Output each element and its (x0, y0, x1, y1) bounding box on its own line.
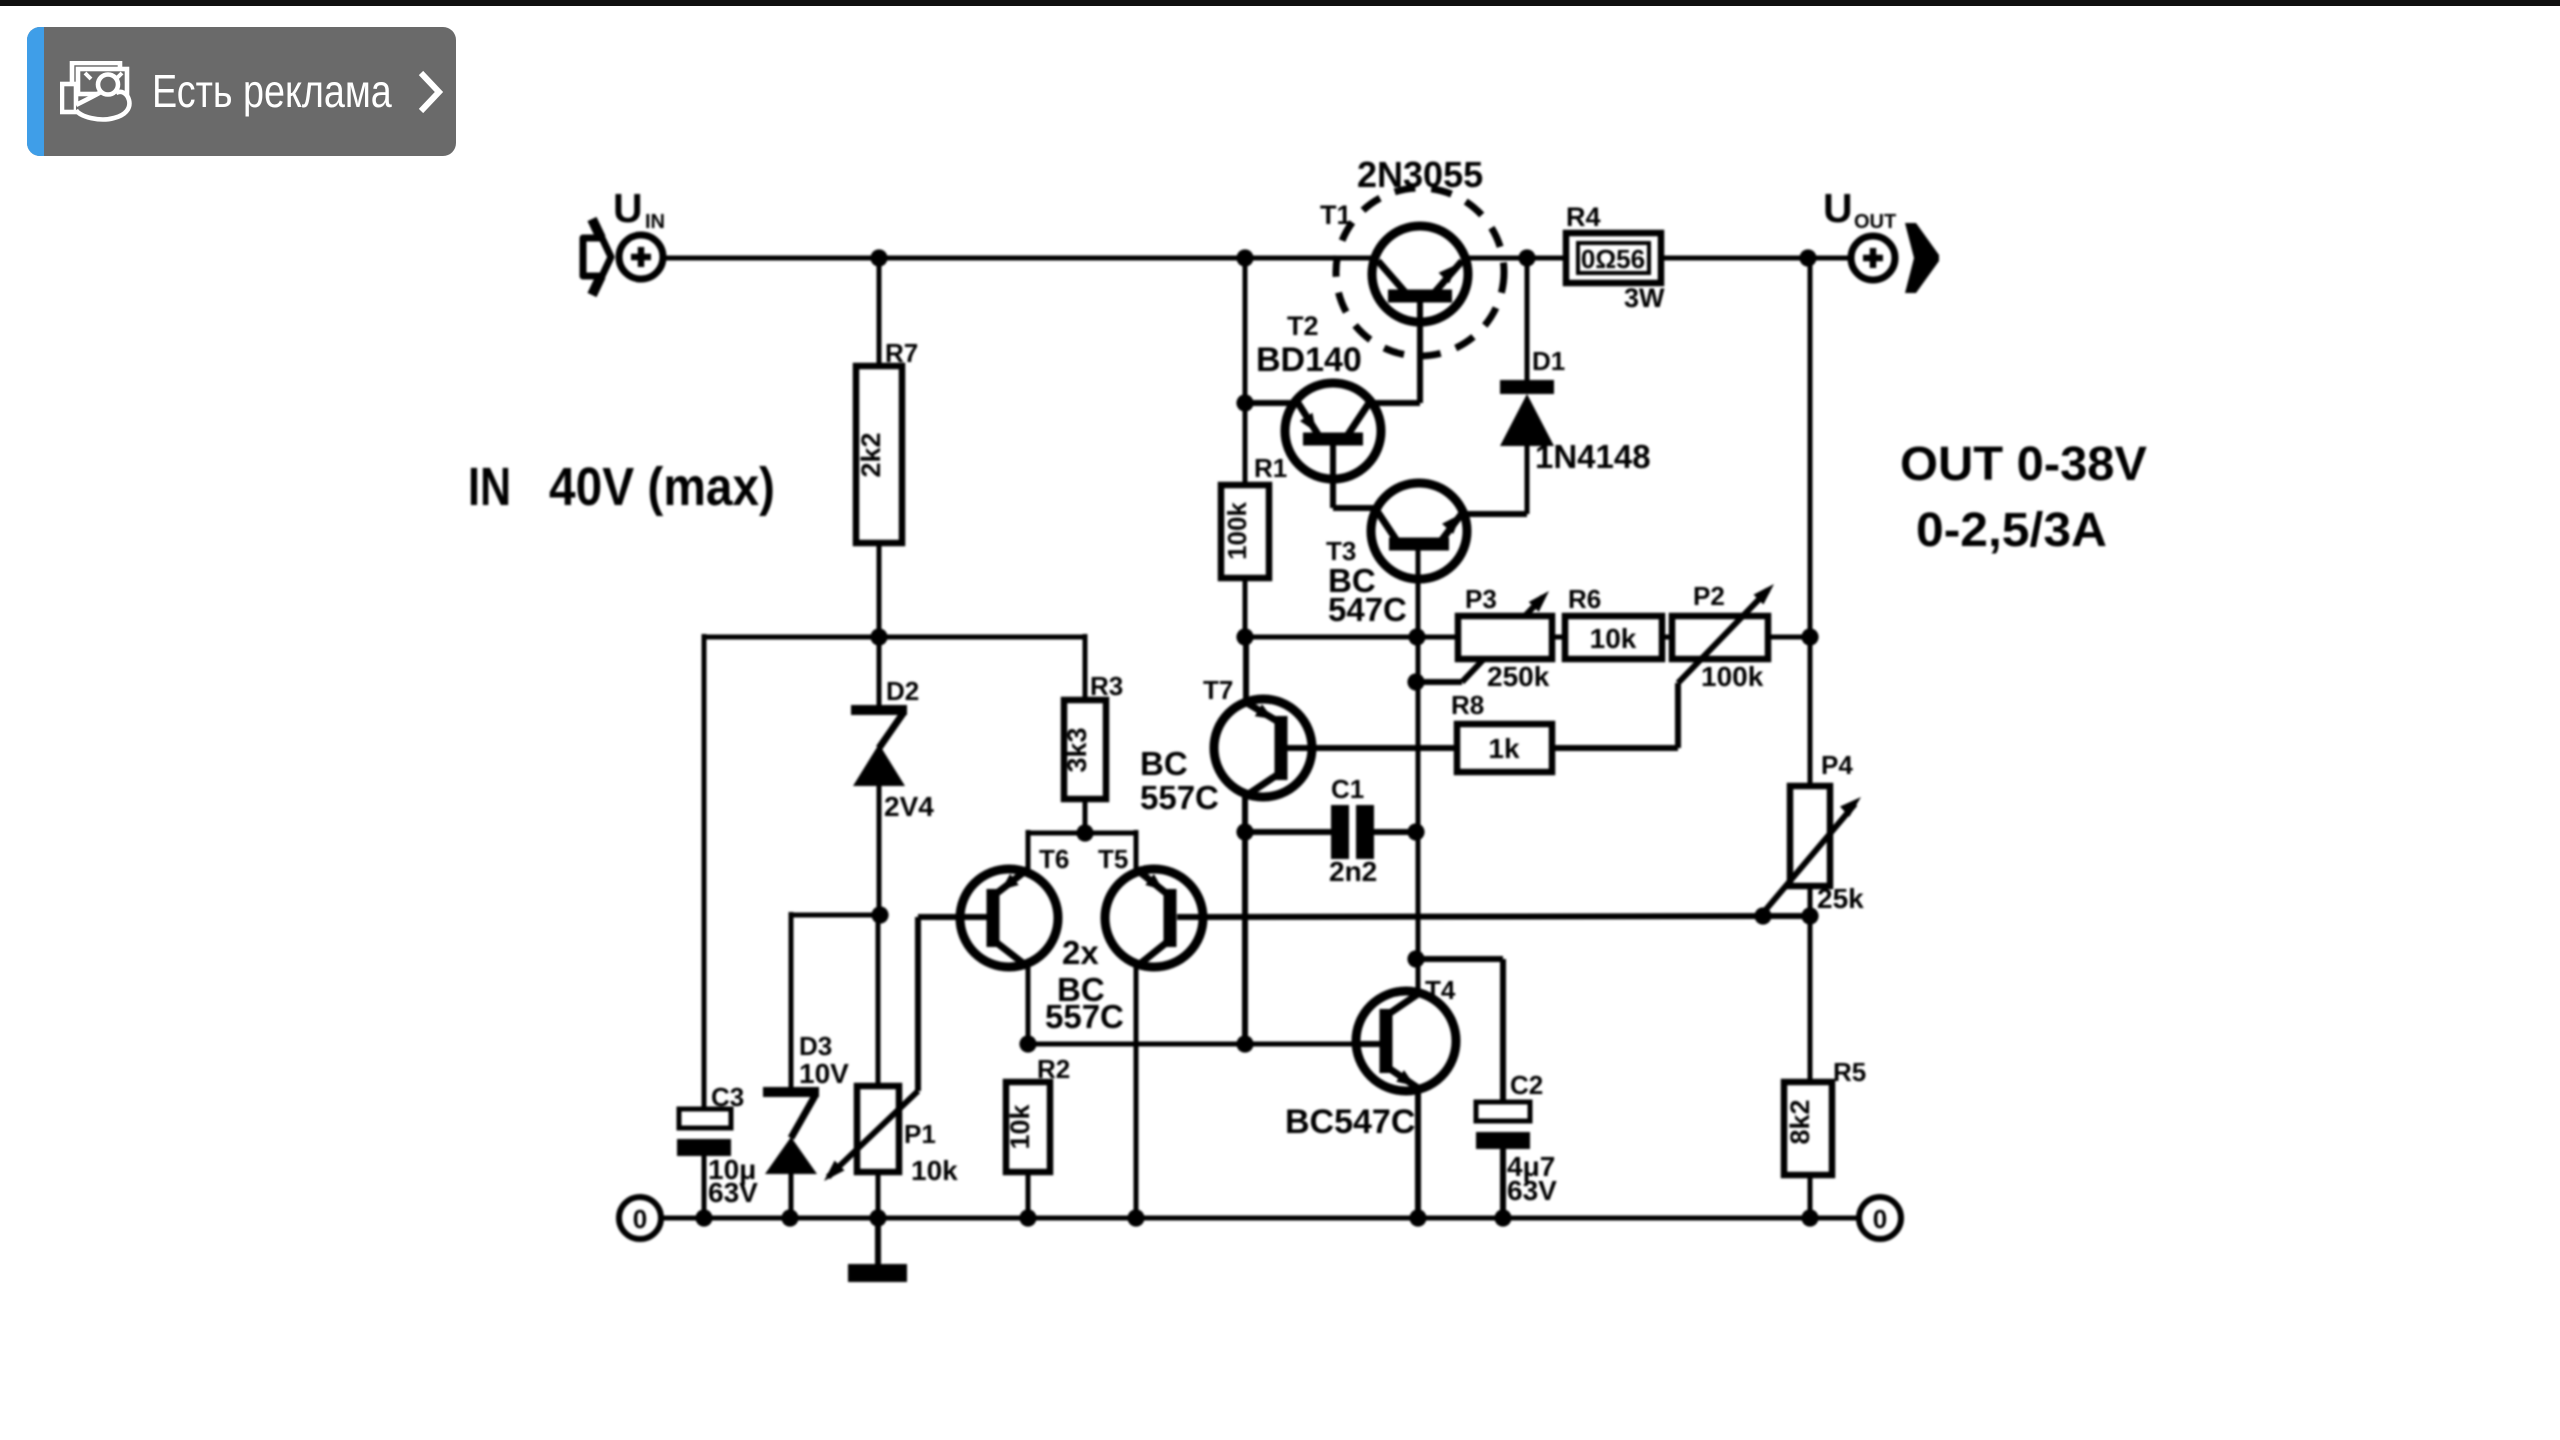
chevron (415, 70, 445, 114)
svg-text:U: U (613, 185, 643, 231)
svg-text:10V: 10V (799, 1058, 849, 1089)
svg-text:0: 0 (1873, 1204, 1887, 1234)
resistor R6 10k (1565, 616, 1662, 659)
junction gnd P1 (869, 1209, 886, 1226)
potentiometer P3 250k (1458, 616, 1552, 659)
svg-text:R6: R6 (1568, 584, 1601, 614)
junction C1 right (1407, 823, 1424, 840)
svg-text:100k: 100k (1701, 661, 1764, 692)
junction T7 collector / T4 base line (1236, 1035, 1253, 1052)
svg-text:BC547C: BC547C (1285, 1103, 1415, 1141)
svg-text:OUT 0-38V: OUT 0-38V (1900, 438, 2147, 491)
svg-text:P3: P3 (1465, 584, 1497, 614)
wire R4 to U_OUT (1661, 256, 1851, 261)
transistor T1 (1372, 226, 1468, 403)
svg-text:100k: 100k (1222, 502, 1252, 560)
wire T3 emitter to D1 (1463, 511, 1527, 517)
svg-text:25k: 25k (1817, 883, 1864, 914)
potentiometer P1 10k (824, 917, 962, 1181)
output arrow symbol (1905, 223, 1939, 293)
transistor T4 BC547C (1356, 991, 1456, 1091)
wire T4 emitter to ground rail (1415, 1088, 1421, 1218)
wire node B to P3 (1245, 635, 1458, 640)
svg-text:T5: T5 (1098, 844, 1128, 874)
wire T2 emitter left (1245, 400, 1298, 406)
transistor T1 2N3055 dashed case (1336, 188, 1504, 356)
svg-text:557C: 557C (1045, 998, 1124, 1035)
svg-text:0-2,5/3A: 0-2,5/3A (1916, 504, 2107, 557)
junction top rail / R7 (870, 249, 887, 266)
svg-text:T7: T7 (1203, 675, 1233, 705)
label 2x BC 557C (1045, 934, 1124, 1035)
svg-text:40V (max): 40V (max) (549, 457, 775, 517)
svg-text:T6: T6 (1039, 844, 1069, 874)
potentiometer P2 100k (1672, 584, 1774, 748)
svg-text:0Ω56: 0Ω56 (1581, 244, 1645, 274)
junction R3 bracket (1076, 824, 1093, 841)
wire C3 branch vertical (702, 634, 707, 1110)
junction T6 collector / R2 (1019, 1035, 1036, 1052)
svg-text:250k: 250k (1487, 661, 1550, 692)
svg-text:P2: P2 (1693, 581, 1725, 611)
svg-text:R7: R7 (885, 338, 918, 368)
transistor T2 BD140 (1285, 383, 1381, 508)
svg-text:R5: R5 (1833, 1057, 1866, 1087)
wire T5 base to P4 wiper (1203, 916, 1810, 917)
wire R8 to T7 base (1312, 745, 1457, 751)
svg-text:63V: 63V (708, 1177, 758, 1208)
svg-text:BD140: BD140 (1256, 341, 1362, 379)
potentiometer P4 25k (1763, 786, 1861, 913)
wire node A left to C3 branch (704, 635, 1085, 640)
junction gnd T4 (1409, 1209, 1426, 1226)
svg-text:3W: 3W (1624, 283, 1665, 313)
wire T6 collector down (1026, 967, 1031, 1044)
wire R1 to node B (1243, 578, 1248, 637)
junction gnd D3 (781, 1209, 798, 1226)
wire output rail upper (1808, 258, 1813, 786)
junction top rail / output rail (1799, 249, 1816, 266)
transistor T6 (960, 869, 1058, 967)
svg-text:10k: 10k (1590, 623, 1637, 654)
wire R3 to T6/T5 bracket (1083, 799, 1088, 833)
wire C2 branch (1416, 959, 1503, 1103)
svg-text:2V4: 2V4 (884, 791, 934, 822)
svg-text:OUT: OUT (1854, 211, 1896, 233)
node 0V ground rail (661, 1216, 1859, 1221)
svg-text:2n2: 2n2 (1329, 856, 1377, 887)
resistor R1 100k (1221, 485, 1269, 578)
resistor R7 2k2 (856, 366, 902, 543)
wire T2 collector to T1 base (1369, 400, 1420, 403)
svg-text:D3: D3 (799, 1031, 832, 1061)
transistor T3 BC547C (1371, 483, 1467, 579)
wire T7 collector down (1242, 795, 1248, 1044)
junction top rail / D1 (1518, 249, 1535, 266)
svg-text:D2: D2 (886, 676, 919, 706)
ad banner (27, 27, 456, 156)
svg-text:R1: R1 (1254, 453, 1287, 483)
svg-text:547C: 547C (1328, 591, 1407, 628)
junction node A (870, 628, 887, 645)
svg-text:63V: 63V (1507, 1175, 1557, 1206)
junction output rail sense line (1801, 907, 1818, 924)
input connector symbol (583, 219, 611, 295)
svg-text:10k: 10k (1005, 1103, 1035, 1149)
svg-text:C1: C1 (1331, 774, 1364, 804)
wire D2 node to D3 (791, 913, 880, 918)
terminal U_IN (619, 235, 663, 279)
node +IN rail: wire (664, 256, 1375, 261)
svg-text:BC: BC (1140, 745, 1188, 782)
ground symbol (848, 1218, 907, 1282)
resistor R3 3k3 (1062, 700, 1106, 799)
wire T5 collector to ground rail (1134, 967, 1139, 1218)
wire bracket T6 T5 (1028, 830, 1136, 870)
wire P2 wiper to R8 (1552, 745, 1678, 751)
wire R6 to P2 (1662, 635, 1672, 640)
svg-text:C2: C2 (1510, 1070, 1543, 1100)
wire P3 wiper (1417, 591, 1549, 682)
svg-text:R8: R8 (1451, 690, 1484, 720)
junction gnd C2 (1494, 1209, 1511, 1226)
resistor R2 10k (1005, 1082, 1050, 1172)
junction base line / node B wire (1408, 628, 1425, 645)
junction node B (1236, 628, 1253, 645)
junction D2 / D3 / P1 (871, 906, 888, 923)
wire output rail middle (1808, 886, 1813, 1082)
svg-text:1k: 1k (1488, 733, 1520, 764)
wire P2 to output rail (1768, 635, 1810, 640)
money icon (60, 61, 132, 125)
junction gnd R5 (1801, 1209, 1818, 1226)
capacitor C1 2n2 (1245, 805, 1417, 859)
svg-text:T4: T4 (1425, 975, 1456, 1005)
wire R7 to node A (877, 543, 882, 637)
wire T7 emitter up to node B (1243, 637, 1249, 706)
wire rail to R1 (1243, 258, 1248, 487)
svg-text:2N3055: 2N3055 (1357, 154, 1483, 195)
svg-text:IN: IN (468, 457, 511, 517)
junction P4 wiper (1754, 907, 1771, 924)
U_IN label (613, 185, 665, 233)
capacitor C2 4u7 63V (1476, 1102, 1530, 1218)
svg-text:R3: R3 (1090, 671, 1123, 701)
junction C2 branch (1407, 950, 1424, 967)
svg-text:T1: T1 (1320, 200, 1352, 230)
label BC 557C T7 (1140, 745, 1219, 816)
svg-text:T2: T2 (1287, 311, 1319, 341)
junction P3 wiper (1407, 673, 1424, 690)
wire P3 to R6 (1552, 635, 1565, 640)
wire rail to R7 (877, 258, 882, 366)
svg-text:10k: 10k (911, 1155, 958, 1186)
wire D2 node to P1 (876, 915, 881, 1086)
svg-text:2k2: 2k2 (856, 432, 886, 477)
zener diode D2 2V4 (851, 637, 907, 915)
junction output rail / P2 line (1801, 628, 1818, 645)
zener diode D3 10V (763, 912, 819, 1218)
svg-text:2x: 2x (1062, 934, 1099, 971)
svg-text:R4: R4 (1566, 202, 1601, 232)
terminal 0V right (1859, 1197, 1901, 1239)
svg-text:D1: D1 (1532, 346, 1565, 376)
junction C1 left (1236, 823, 1253, 840)
top dark strip (0, 0, 2560, 6)
terminal U_OUT (1851, 236, 1895, 280)
label IN 40V max (468, 457, 775, 517)
svg-text:1N4148: 1N4148 (1535, 438, 1651, 475)
diode D1 1N4148 (1500, 258, 1554, 514)
terminal 0V left (619, 1197, 661, 1239)
wire R2 to ground rail (1026, 1172, 1031, 1218)
resistor R8 1k (1457, 724, 1552, 772)
svg-text:P1: P1 (904, 1119, 936, 1149)
resistor R5 8k2 (1784, 1082, 1832, 1175)
U_OUT label (1823, 185, 1896, 233)
junction gnd R2 (1019, 1209, 1036, 1226)
svg-text:C3: C3 (711, 1082, 744, 1112)
svg-text:P4: P4 (1821, 750, 1853, 780)
svg-text:R2: R2 (1037, 1054, 1070, 1084)
wire P1 to ground rail (876, 1172, 881, 1218)
wire R5 to ground rail (1808, 1175, 1813, 1218)
svg-text:IN: IN (645, 211, 665, 233)
svg-text:0: 0 (633, 1204, 647, 1234)
junction top rail / R1 (1236, 249, 1253, 266)
junction gnd T5 (1127, 1209, 1144, 1226)
svg-text:8k2: 8k2 (1785, 1099, 1815, 1144)
junction gnd C3 (695, 1209, 712, 1226)
label BC 547C T3 (1328, 562, 1407, 628)
wire base line T4 (1028, 1042, 1356, 1047)
transistor T5 (1105, 869, 1203, 967)
wire T1 emitter to R4 (1465, 256, 1566, 261)
wire T3 base down to T4 collector (1416, 550, 1421, 993)
wire node A to R3 (1083, 634, 1088, 700)
svg-text:3k3: 3k3 (1062, 727, 1092, 772)
junction R1 line / T2 (1236, 394, 1253, 411)
capacitor C3 10u 63V (677, 1109, 731, 1218)
transistor T7 BC557C (1214, 699, 1312, 797)
svg-text:557C: 557C (1140, 779, 1219, 816)
resistor R4 0R56 3W (1566, 233, 1661, 283)
svg-text:U: U (1823, 185, 1853, 231)
